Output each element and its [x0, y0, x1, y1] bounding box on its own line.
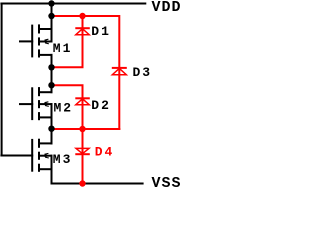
transistor M3	[32, 139, 52, 172]
diode D3	[112, 68, 127, 75]
diode D2	[75, 98, 90, 104]
junction node red-bottom/D2/D4	[79, 126, 85, 132]
transistor M2	[19, 87, 53, 120]
wire left rail	[1, 3, 3, 157]
wire D1 bottom horizontal	[51, 66, 84, 68]
junction node D4/VSS rail	[79, 180, 85, 186]
diode D4	[75, 148, 90, 154]
wire D1 branch vertical	[82, 15, 84, 67]
wire spine bottom (M3 bulk/source to VSS)	[51, 155, 53, 185]
svg-text:VSS: VSS	[152, 175, 182, 190]
svg-text:D2: D2	[91, 98, 111, 113]
svg-text:D3: D3	[133, 65, 153, 80]
wire D4 branch vertical	[82, 128, 84, 185]
wire spine mid2 (M2 bulk/source to M3 drain)	[51, 103, 53, 144]
wire M3 gate	[0, 155, 33, 157]
wire M3 drain stub	[38, 142, 53, 144]
wire D2 branch vertical	[82, 85, 84, 130]
junction node spine/red-top	[48, 13, 54, 19]
wire D2 top horizontal	[51, 84, 84, 86]
junction node red-top/D1	[79, 13, 85, 19]
junction node spine/D1-bottom	[48, 64, 54, 70]
junction node spine/red-bottom	[48, 126, 54, 132]
svg-text:M1: M1	[53, 41, 73, 56]
svg-text:VDD: VDD	[152, 0, 182, 16]
wire VDD top rail	[0, 3, 146, 5]
wire VSS bottom rail	[51, 183, 144, 185]
wire spine mid1 (M1 source to M2 drain)	[51, 54, 53, 93]
junction node spine/D2-top	[48, 82, 54, 88]
wire M2 drain stub	[38, 91, 53, 93]
junction node VDD/spine	[48, 0, 54, 6]
wire red top branch (node between spine and D3)	[51, 15, 120, 17]
wire M1 drain stub	[38, 28, 53, 30]
transistor M1	[19, 24, 53, 57]
wire red bottom branch	[51, 128, 121, 130]
svg-text:D1: D1	[91, 24, 111, 39]
wire spine top (VDD to M1 drain/bulk)	[51, 3, 53, 43]
diode D1	[75, 28, 90, 35]
wire D3 branch vertical	[118, 15, 120, 130]
svg-text:D4: D4	[95, 144, 115, 159]
svg-text:M3: M3	[53, 152, 73, 167]
svg-text:M2: M2	[54, 101, 74, 116]
